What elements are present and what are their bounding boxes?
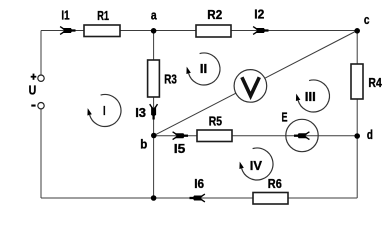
svg-text:I3: I3 bbox=[135, 105, 146, 120]
svg-text:R3: R3 bbox=[164, 72, 177, 87]
svg-text:d: d bbox=[367, 127, 373, 142]
svg-text:b: b bbox=[140, 137, 147, 152]
svg-text:I1: I1 bbox=[61, 7, 69, 22]
svg-text:R6: R6 bbox=[268, 176, 282, 191]
svg-text:a: a bbox=[151, 7, 157, 22]
svg-text:R5: R5 bbox=[209, 113, 222, 128]
svg-text:R2: R2 bbox=[207, 7, 222, 22]
svg-text:R1: R1 bbox=[97, 8, 109, 23]
svg-text:R4: R4 bbox=[368, 75, 382, 90]
svg-text:c: c bbox=[364, 12, 370, 27]
svg-text:IV: IV bbox=[250, 158, 263, 173]
svg-text:I6: I6 bbox=[194, 176, 204, 191]
svg-text:U: U bbox=[29, 82, 37, 97]
svg-text:I5: I5 bbox=[174, 141, 186, 156]
svg-text:E: E bbox=[282, 110, 288, 125]
svg-text:II: II bbox=[200, 61, 208, 76]
svg-text:I2: I2 bbox=[254, 7, 264, 22]
svg-text:I: I bbox=[103, 103, 106, 118]
svg-text:III: III bbox=[305, 89, 316, 104]
